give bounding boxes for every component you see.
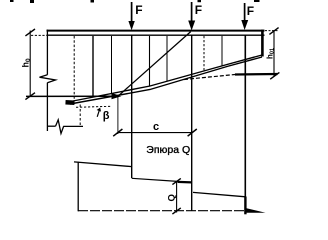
stray scan mark top-right <box>254 0 260 2</box>
beam top edge (upper line) <box>47 30 265 32</box>
stray scan mark top 3 <box>91 0 95 3</box>
Q diagram step 1 <box>74 162 132 167</box>
support bottom line with break <box>47 120 83 134</box>
beam bottom inclined chord (lower line) <box>70 57 262 104</box>
Q dim bottom tick <box>172 208 180 214</box>
beta angle dotted reference line <box>76 106 111 107</box>
hatch vertical x=111.5 <box>111 36 113 94</box>
svg-text:c: c <box>153 121 159 133</box>
right depth dimension dotted top extension <box>265 30 278 32</box>
Q diagram baseline (dashed) <box>78 210 247 212</box>
hatch vertical x=149.5 <box>149 36 151 86</box>
c left extension stub <box>117 97 119 134</box>
stray scan mark top-left 1 <box>10 0 14 2</box>
svg-text:F: F <box>247 4 254 18</box>
hatch vertical x=74 (dashed) <box>73 36 75 101</box>
bottom chord left end blob <box>66 100 75 105</box>
beam bottom inclined chord (upper line) <box>73 55 262 101</box>
svg-text:F: F <box>135 3 142 17</box>
stray scan mark top-left 2 <box>30 0 34 3</box>
Q diagram left edge <box>77 162 79 212</box>
dimension Q line <box>176 182 178 213</box>
h0 dotted extension to beam <box>31 34 47 36</box>
bottom reference leader line with arrow <box>26 93 121 99</box>
right dim top tick <box>269 28 278 35</box>
support face vertical with break <box>40 30 56 131</box>
svg-text:Q: Q <box>167 194 178 201</box>
h0 bottom tick <box>25 93 35 100</box>
baseline end wedge <box>247 208 266 213</box>
hatch vertical x=204 (dotted) <box>203 36 205 72</box>
svg-text:β: β <box>103 110 110 122</box>
extension line under F3 <box>244 35 246 214</box>
Q diagram step 2 thick end <box>178 181 192 184</box>
hatch vertical x=167 <box>166 36 168 82</box>
extension line under F1 <box>131 35 133 178</box>
force F3 arrow <box>241 3 248 30</box>
c left tick <box>113 129 122 136</box>
force F2 arrow <box>188 2 195 31</box>
h0 top tick <box>25 29 35 36</box>
Q dim top tick <box>172 178 180 184</box>
stray scan mark above F2 <box>198 0 202 2</box>
beam right end edge <box>261 30 264 57</box>
svg-text:F: F <box>195 3 202 17</box>
beam top edge (lower line) <box>47 34 265 36</box>
svg-text:Эпюра Q: Эпюра Q <box>146 144 190 156</box>
horizontal reference line at right (dashed then solid) <box>184 75 235 80</box>
Q diagram step 3 <box>193 192 246 196</box>
Q diagram step 2 <box>132 178 178 181</box>
inclined section (crack) line <box>119 32 191 96</box>
force F1 arrow <box>128 2 134 30</box>
c right tick <box>188 129 197 136</box>
dimension c line <box>118 132 193 134</box>
dotted extension under haunch start <box>79 105 81 127</box>
extension line under F2 <box>191 35 193 211</box>
right dim bottom tick <box>270 72 279 79</box>
hatch vertical x=93 <box>92 36 94 97</box>
Q diagram right drop <box>244 197 246 215</box>
beta leader arrow <box>97 108 101 117</box>
dimension h0 line <box>29 31 31 97</box>
right depth dimension line <box>273 31 275 76</box>
hatch vertical x=222 <box>221 36 223 67</box>
